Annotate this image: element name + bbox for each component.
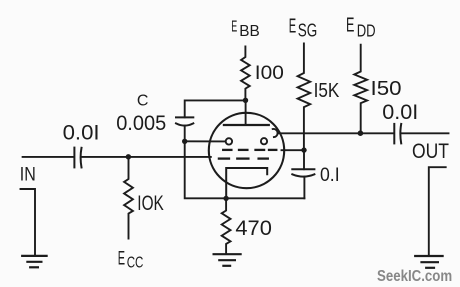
- dynode curl: [273, 129, 278, 137]
- wire screen grid to node: [282, 149, 305, 151]
- svg-text:IN: IN: [20, 165, 36, 186]
- node cathode/470 junction: [223, 196, 228, 201]
- capacitor 0.01 output: [394, 124, 401, 143]
- capacitor C 0.005: [176, 117, 193, 125]
- svg-text:E: E: [289, 16, 296, 38]
- resistor R 15K ESG: [298, 44, 311, 151]
- capacitor 0.1: [292, 169, 314, 176]
- screen grid dashes: [223, 149, 276, 151]
- wire IN lower terminal stub: [21, 189, 36, 255]
- wire to OUT: [401, 132, 448, 134]
- resistor R 100 EBB: [241, 47, 250, 101]
- svg-text:E: E: [118, 248, 125, 269]
- wire top plate bus: [185, 100, 246, 117]
- wire node to 0.1 cap: [303, 150, 305, 169]
- resistor R 150 EDD: [354, 45, 367, 134]
- svg-text:E: E: [346, 15, 354, 37]
- wire 0.005 to grid2 node: [184, 126, 186, 142]
- svg-text:0.0I: 0.0I: [382, 101, 418, 124]
- grid pin circle left: [226, 138, 232, 144]
- node EDD/output junction: [358, 130, 364, 136]
- node input/10K junction: [126, 154, 131, 159]
- ground OUT: [415, 256, 442, 268]
- svg-text:IOK: IOK: [137, 192, 164, 215]
- wire IN input lead: [23, 156, 74, 158]
- resistor R 470: [222, 198, 231, 252]
- grid pin circle right: [261, 138, 267, 144]
- svg-text:CC: CC: [127, 254, 144, 271]
- svg-text:E: E: [231, 19, 237, 36]
- tube V1 envelope: [209, 113, 284, 188]
- svg-text:0.I: 0.I: [320, 165, 340, 186]
- plate bar: [224, 124, 269, 126]
- control grid dashes: [219, 157, 268, 159]
- svg-text:0.005: 0.005: [116, 112, 166, 135]
- wire left vertical down: [185, 141, 305, 198]
- svg-text:I00: I00: [255, 63, 284, 84]
- svg-text:0.0I: 0.0I: [63, 121, 100, 144]
- svg-text:470: 470: [235, 216, 272, 240]
- svg-text:C: C: [137, 93, 149, 110]
- svg-text:SG: SG: [298, 20, 318, 40]
- plate lead: [245, 100, 247, 125]
- ground IN: [22, 256, 46, 267]
- svg-text:OUT: OUT: [412, 140, 449, 163]
- svg-text:BB: BB: [239, 23, 259, 40]
- svg-text:SeekIC.com: SeekIC.com: [377, 268, 452, 285]
- wire input cap to grid: [82, 156, 211, 158]
- node plate/EBB junction: [243, 98, 248, 103]
- svg-text:I5K: I5K: [314, 80, 340, 102]
- wire grid2 pin lead: [185, 140, 226, 142]
- node screen junction: [301, 147, 306, 152]
- svg-text:I50: I50: [371, 77, 402, 100]
- svg-text:DD: DD: [357, 20, 376, 40]
- wire OUT lower terminal stub: [429, 167, 446, 256]
- node grid2 junction: [182, 139, 187, 144]
- ground 470: [214, 254, 241, 266]
- capacitor 0.01 input: [74, 148, 81, 168]
- wire dynode to output: [278, 132, 394, 134]
- cathode: [226, 168, 267, 198]
- wire 0.1 cap to bottom bus: [303, 177, 305, 199]
- resistor R 10K: [124, 157, 133, 239]
